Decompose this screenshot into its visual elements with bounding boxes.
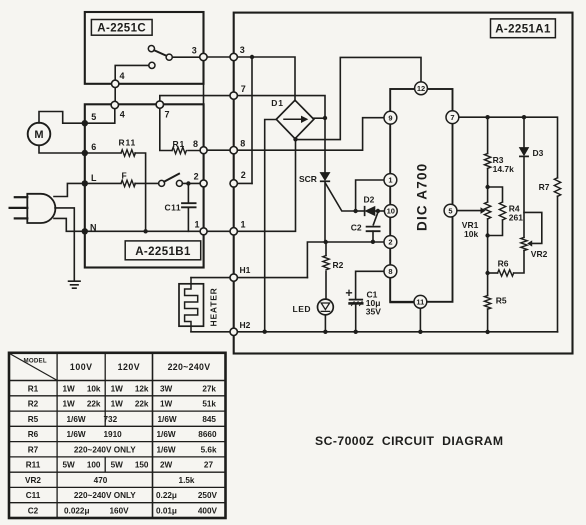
svg-text:F: F bbox=[122, 171, 127, 181]
svg-text:35V: 35V bbox=[366, 307, 381, 317]
svg-text:1W: 1W bbox=[111, 400, 124, 409]
svg-text:1910: 1910 bbox=[104, 430, 123, 439]
heater meander bbox=[185, 278, 198, 332]
svg-text:A-2251B1: A-2251B1 bbox=[135, 246, 191, 258]
switch S1 pivot bbox=[166, 54, 172, 60]
svg-text:SC-7000Z CIRCUIT DIAGRAM: SC-7000Z CIRCUIT DIAGRAM bbox=[315, 434, 503, 448]
plug prong middle bbox=[10, 207, 28, 209]
table column line 3 bbox=[152, 353, 154, 518]
junction dot D3 top on pin7 rail bbox=[522, 115, 526, 119]
wire gate node to D2 bbox=[356, 210, 365, 212]
pin circle 10 bbox=[384, 205, 397, 218]
svg-text:H2: H2 bbox=[240, 320, 251, 330]
junction dot bridge-left on H2 bbox=[263, 330, 267, 334]
potentiometer VR1 zigzag bbox=[484, 202, 490, 219]
svg-text:C11: C11 bbox=[26, 491, 41, 500]
wire net H1 from heater to riser bbox=[191, 277, 307, 279]
wire VR1 bottom segment bbox=[487, 219, 489, 296]
svg-text:2: 2 bbox=[388, 238, 392, 247]
wire gate node to pin 1 bbox=[356, 180, 384, 211]
resistor R6 zigzag bbox=[498, 270, 514, 276]
wire VR2 wiper loop bbox=[524, 212, 542, 243]
pin circle 9 bbox=[384, 111, 397, 124]
ground symbol bbox=[69, 281, 80, 288]
wire R11 to N line bbox=[135, 153, 146, 231]
wire switch S2 to terminal 2 of B1 bbox=[182, 182, 203, 184]
terminal circle 7 (B1 top) bbox=[156, 101, 163, 108]
wire net H2 from heater to R7 bottom bbox=[191, 331, 558, 333]
port circle H2 (A1 box) bbox=[230, 328, 237, 335]
svg-text:100V: 100V bbox=[70, 362, 93, 372]
plug prong bottom bbox=[15, 217, 27, 219]
bridge rectifier D1 diamond bbox=[276, 100, 314, 139]
svg-text:1/6W: 1/6W bbox=[67, 430, 86, 439]
wire C2 bottom stub bbox=[372, 231, 374, 242]
terminal dot 6 bbox=[82, 150, 88, 156]
pin circle 11 bbox=[414, 295, 427, 308]
wire R2 to LED bbox=[325, 272, 327, 300]
svg-text:L: L bbox=[91, 173, 97, 183]
terminal circle 2 (B1 right) bbox=[200, 180, 207, 187]
svg-text:4: 4 bbox=[120, 71, 125, 81]
svg-text:1: 1 bbox=[241, 220, 246, 230]
svg-text:R11: R11 bbox=[26, 461, 41, 470]
pin circle 12 bbox=[415, 82, 428, 95]
svg-text:R11: R11 bbox=[119, 137, 137, 147]
svg-text:R7: R7 bbox=[539, 182, 550, 192]
diode D3 triangle (pointing down) bbox=[520, 148, 529, 156]
junction dot R5 on H2 bbox=[485, 330, 489, 334]
svg-text:22k: 22k bbox=[135, 400, 149, 409]
svg-text:2: 2 bbox=[194, 171, 199, 181]
wire motor bottom to terminal 6 bbox=[39, 146, 85, 154]
svg-text:7: 7 bbox=[450, 113, 454, 122]
board box A-2251A1 outline bbox=[234, 13, 573, 354]
pin circle 7 bbox=[446, 111, 459, 124]
port circle 7 (A1 box) bbox=[230, 92, 237, 99]
svg-text:120V: 120V bbox=[118, 362, 141, 372]
diode D2 triangle (pointing left) bbox=[366, 207, 375, 216]
wire C-box contact to node 4 bbox=[115, 65, 149, 83]
svg-text:1W: 1W bbox=[63, 400, 76, 409]
svg-text:220~240V ONLY: 220~240V ONLY bbox=[74, 491, 136, 500]
svg-text:R1: R1 bbox=[28, 384, 39, 393]
svg-text:1W: 1W bbox=[160, 400, 173, 409]
svg-text:1/6W: 1/6W bbox=[67, 415, 86, 424]
wire LED to H2 line bbox=[324, 315, 326, 332]
svg-text:D2: D2 bbox=[364, 194, 375, 204]
svg-text:8: 8 bbox=[240, 139, 245, 149]
VR2 wiper arrow bbox=[527, 240, 532, 246]
board box A-2251B1 outline bbox=[85, 104, 204, 267]
wire pin 8 to pin 11 bbox=[390, 278, 414, 303]
svg-text:R6: R6 bbox=[498, 259, 509, 269]
op-amp U1 : IC DIC A700 body bbox=[390, 89, 452, 302]
switch S1 blade bbox=[154, 50, 166, 55]
svg-text:R5: R5 bbox=[28, 415, 39, 424]
LED indicator circle bbox=[318, 299, 334, 315]
svg-text:470: 470 bbox=[94, 476, 108, 485]
wire net 8 from terminal 8 to pin 9 bbox=[204, 118, 384, 151]
svg-text:SCR: SCR bbox=[299, 174, 317, 184]
resistor R4 zigzag bbox=[499, 202, 505, 220]
junction dot R3 top on pin7 rail bbox=[485, 115, 489, 119]
svg-text:27k: 27k bbox=[202, 384, 216, 393]
junction dot pin11 on H2 bbox=[418, 330, 422, 334]
wire pin 5 to VR1 bbox=[457, 210, 481, 212]
capacitor C1 electrolytic plates bbox=[350, 299, 363, 301]
label frame A-2251B1 bbox=[125, 241, 201, 260]
terminal dot N bbox=[82, 228, 88, 234]
junction dot gate node bbox=[353, 209, 357, 213]
svg-text:D3: D3 bbox=[533, 148, 544, 158]
svg-text:5.6k: 5.6k bbox=[201, 445, 217, 454]
terminal circle 8 (B1 right) bbox=[200, 147, 207, 154]
junction dot bridge plus / SCR anode bbox=[323, 116, 327, 120]
wire R2 top stub bbox=[325, 242, 327, 256]
wire D2 to pin 10 bbox=[375, 210, 385, 212]
svg-text:1: 1 bbox=[388, 176, 392, 185]
wire plug live to terminal L bbox=[54, 183, 85, 196]
wire switch S1 pivot to terminal 3 of C-box bbox=[172, 56, 203, 58]
svg-text:2W: 2W bbox=[160, 461, 173, 470]
wire joining C-box to B1-box right edge bbox=[203, 84, 205, 105]
switch S1 contact upper (C-box) bbox=[148, 46, 154, 52]
junction dot bridge negative bbox=[293, 137, 297, 141]
table column line 1 bbox=[56, 353, 58, 518]
svg-text:1/6W: 1/6W bbox=[158, 415, 177, 424]
pin circle 2 bbox=[384, 236, 397, 249]
pin circle 8 bbox=[384, 265, 397, 278]
resistor R5 zigzag bbox=[484, 296, 490, 310]
svg-text:VR2: VR2 bbox=[25, 476, 41, 485]
wire net 3-2 drop bbox=[251, 57, 253, 183]
svg-text:4: 4 bbox=[120, 110, 125, 120]
junction dot VR1 bottom / R4 bbox=[485, 233, 489, 237]
svg-text:10: 10 bbox=[387, 207, 395, 216]
svg-text:3W: 3W bbox=[160, 384, 173, 393]
resistor R2 zigzag bbox=[323, 256, 329, 270]
wire bridge plus stub bbox=[314, 117, 326, 119]
VR1 wiper arrow bbox=[481, 207, 486, 214]
wire R1 to terminal 8 of B1 bbox=[188, 150, 204, 152]
svg-text:7: 7 bbox=[165, 110, 170, 120]
svg-text:11: 11 bbox=[416, 298, 424, 307]
table header diagonal bbox=[10, 354, 57, 381]
svg-text:14.7k: 14.7k bbox=[493, 164, 515, 174]
svg-text:27: 27 bbox=[204, 461, 214, 470]
terminal dot L bbox=[82, 180, 88, 186]
SCR cathode bar bbox=[321, 180, 330, 182]
svg-text:R2: R2 bbox=[28, 400, 39, 409]
svg-text:9: 9 bbox=[388, 113, 392, 122]
svg-text:A-2251C: A-2251C bbox=[97, 23, 146, 35]
wire VR2 bottom to R6 bbox=[514, 250, 524, 273]
port circle 3 (A1 box) bbox=[230, 53, 237, 60]
wire net 7 from node 7 to bridge plus bbox=[160, 96, 325, 118]
resistor R3 zigzag bbox=[484, 154, 490, 169]
svg-text:1: 1 bbox=[195, 220, 200, 230]
svg-text:1W: 1W bbox=[111, 384, 124, 393]
potentiometer VR2 zigzag bbox=[521, 237, 527, 250]
svg-text:100: 100 bbox=[87, 461, 101, 470]
label frame A-2251A1 bbox=[491, 19, 556, 38]
svg-text:MODEL: MODEL bbox=[24, 358, 47, 365]
wire bridge left to H2 drop bbox=[265, 120, 277, 332]
svg-text:400V: 400V bbox=[198, 507, 218, 516]
pin circle 1 bbox=[384, 174, 397, 187]
svg-text:51k: 51k bbox=[202, 400, 216, 409]
svg-text:7: 7 bbox=[241, 84, 246, 94]
svg-text:C2: C2 bbox=[351, 223, 362, 233]
svg-text:LED: LED bbox=[293, 304, 312, 314]
svg-text:0.022μ: 0.022μ bbox=[64, 507, 90, 516]
svg-text:8: 8 bbox=[193, 139, 198, 149]
svg-text:1/6W: 1/6W bbox=[157, 430, 176, 439]
wire C1 to H2 line bbox=[355, 304, 357, 332]
wire net 2 from H1 riser to pin 2 bbox=[307, 242, 384, 278]
svg-text:C2: C2 bbox=[28, 507, 39, 516]
wire pin 11 to H2 line bbox=[419, 308, 421, 332]
svg-text:12k: 12k bbox=[135, 384, 149, 393]
junction dot C2 on net2 bbox=[371, 240, 375, 244]
heater element outline bbox=[179, 284, 204, 326]
resistor R1 zigzag bbox=[172, 147, 186, 153]
wire R6 to VR1 column bbox=[488, 272, 498, 274]
svg-text:8: 8 bbox=[388, 267, 392, 276]
wire terminal 5 to node 4 inside B1 bbox=[85, 105, 115, 123]
junction dot SCR cathode / R2 on net2 bbox=[324, 240, 328, 244]
wire R5 bottom to H2 bbox=[487, 309, 489, 332]
svg-text:220~240V: 220~240V bbox=[168, 362, 211, 372]
port circle H1 (A1 box) bbox=[230, 274, 237, 281]
resistor R11 zigzag bbox=[121, 150, 135, 156]
motor M bbox=[28, 123, 51, 146]
LED inner triangle and bar bbox=[321, 303, 329, 311]
junction dot C1 on H2 bbox=[354, 330, 358, 334]
svg-text:A-2251A1: A-2251A1 bbox=[495, 24, 551, 36]
wire SCR cathode to node 2 line bbox=[324, 181, 326, 242]
wire circle 2 to 3-2 drop bbox=[234, 182, 252, 184]
terminal circle 1 (B1 right) bbox=[200, 228, 207, 235]
SCR thyristor triangle bbox=[320, 173, 329, 181]
wire net 12 from pin 12 to bridge negative bbox=[296, 57, 422, 139]
junction dot VR1 top / R4 bbox=[485, 185, 489, 189]
svg-text:0.22μ: 0.22μ bbox=[156, 491, 177, 500]
junction dot LED on H2 bbox=[323, 330, 327, 334]
wire plug earth to ground bbox=[55, 208, 74, 281]
svg-text:0.01μ: 0.01μ bbox=[156, 507, 177, 516]
terminal circle 4 (B1 top) bbox=[111, 101, 118, 108]
wire terminal 6 to R11 bbox=[85, 152, 121, 154]
svg-text:5W: 5W bbox=[63, 461, 76, 470]
wire R7 bottom drop bbox=[557, 196, 559, 332]
svg-text:VR2: VR2 bbox=[531, 249, 548, 259]
wire SCR anode bbox=[324, 118, 326, 173]
terminal circle 4 (C-box bottom) bbox=[112, 80, 119, 87]
switch S2 blade bbox=[164, 174, 179, 182]
terminal circle 3 (C-box) bbox=[200, 53, 207, 60]
switch S1 contact lower (C-box) bbox=[149, 62, 155, 68]
junction dot R6 / VR1 column bbox=[485, 271, 489, 275]
port circle 1 (A1 box) bbox=[230, 228, 237, 235]
board box A-2251C outline bbox=[85, 12, 204, 84]
svg-text:22k: 22k bbox=[87, 400, 101, 409]
diode D3 cathode bar bbox=[520, 155, 528, 157]
table header bottom line bbox=[9, 380, 226, 382]
port circle 2 (A1 box) bbox=[230, 180, 237, 187]
wire net N/1 from terminal N to bridge negative bbox=[85, 139, 296, 231]
svg-text:DIC A700: DIC A700 bbox=[415, 163, 430, 231]
svg-text:3: 3 bbox=[240, 45, 245, 55]
svg-text:150: 150 bbox=[135, 461, 149, 470]
svg-text:10k: 10k bbox=[464, 229, 478, 239]
plug body bbox=[27, 194, 55, 223]
wire node 7 drop to R1 bbox=[160, 104, 172, 150]
svg-text:R2: R2 bbox=[333, 260, 344, 270]
svg-text:250V: 250V bbox=[198, 491, 218, 500]
capacitor C11 plates bbox=[182, 203, 196, 207]
capacitor C2 plates bbox=[367, 227, 380, 232]
svg-text:5W: 5W bbox=[111, 461, 124, 470]
svg-text:6: 6 bbox=[91, 142, 96, 152]
svg-text:H1: H1 bbox=[240, 265, 251, 275]
wire net 3 from C-box to bridge top bbox=[203, 57, 295, 101]
svg-text:R6: R6 bbox=[28, 430, 39, 439]
svg-text:R5: R5 bbox=[496, 296, 507, 306]
wire plug neutral to terminal N bbox=[54, 218, 85, 231]
wire pin10 node to C2 diagonal bbox=[373, 212, 378, 225]
wire R4 parallel top bbox=[488, 187, 503, 202]
svg-text:845: 845 bbox=[202, 415, 216, 424]
fuse F zigzag bbox=[121, 180, 135, 186]
svg-text:M: M bbox=[34, 129, 43, 141]
svg-text:220~240V ONLY: 220~240V ONLY bbox=[74, 445, 136, 454]
wire R3 to VR1 bbox=[487, 169, 489, 203]
svg-text:R7: R7 bbox=[28, 445, 39, 454]
port circle 8 (A1 box) bbox=[230, 147, 237, 154]
capacitor C1 polarity plus bbox=[347, 290, 352, 295]
resistor R7 zigzag bbox=[554, 178, 560, 197]
wire C11 top stub bbox=[187, 183, 189, 203]
pin circle 5 bbox=[444, 204, 457, 217]
junction dot D2 / pin10 bbox=[376, 209, 380, 213]
table row lines bbox=[9, 396, 226, 503]
svg-text:160V: 160V bbox=[110, 507, 130, 516]
junction dot R11/N bbox=[143, 229, 147, 233]
svg-text:C11: C11 bbox=[165, 203, 182, 213]
wire net pin7 top rail bbox=[459, 117, 558, 178]
svg-text:261: 261 bbox=[509, 213, 523, 223]
junction dot C11 top bbox=[186, 181, 190, 185]
svg-text:R1: R1 bbox=[173, 139, 185, 149]
svg-text:3: 3 bbox=[192, 46, 197, 56]
svg-text:2: 2 bbox=[241, 170, 246, 180]
wire SCR gate diagonal bbox=[326, 184, 356, 212]
switch S2 contact right (B1) bbox=[176, 180, 182, 186]
svg-text:10k: 10k bbox=[87, 384, 101, 393]
terminal dot 5 bbox=[82, 120, 88, 126]
wire D3 to VR2 bbox=[523, 157, 525, 238]
svg-text:1/6W: 1/6W bbox=[157, 445, 176, 454]
svg-text:1.5k: 1.5k bbox=[179, 476, 195, 485]
junction dot net3/net2 bbox=[250, 55, 254, 59]
svg-text:5: 5 bbox=[448, 206, 452, 215]
label frame A-2251C bbox=[91, 20, 152, 36]
wire node 4 link between boxes bbox=[114, 84, 116, 105]
table column line 2 (partial) bbox=[104, 353, 106, 472]
wire R4 parallel bottom bbox=[488, 220, 503, 236]
switch S2 contact left (B1) bbox=[159, 180, 165, 186]
svg-text:5: 5 bbox=[91, 112, 96, 122]
svg-text:1W: 1W bbox=[63, 384, 76, 393]
table outer border bbox=[9, 353, 226, 518]
wire terminal L to fuse F bbox=[85, 182, 121, 184]
wire fuse F to switch S2 bbox=[135, 182, 159, 184]
svg-text:D1: D1 bbox=[271, 98, 283, 108]
bridge D1 inner arrow bbox=[284, 118, 302, 120]
diode D2 cathode bar bbox=[364, 207, 366, 216]
wire VR1 column top (R3) bbox=[487, 117, 489, 153]
svg-text:12: 12 bbox=[417, 84, 425, 93]
svg-text:8660: 8660 bbox=[198, 430, 217, 439]
svg-text:N: N bbox=[90, 223, 97, 233]
wire D3 top stub bbox=[523, 117, 525, 147]
wire C11 bottom stub bbox=[187, 207, 189, 231]
wire motor top to terminal 5 bbox=[39, 112, 85, 124]
wire pin 8 to C1 bbox=[356, 271, 384, 299]
plug prong top bbox=[15, 196, 27, 198]
svg-text:732: 732 bbox=[104, 415, 118, 424]
svg-text:HEATER: HEATER bbox=[209, 287, 219, 326]
